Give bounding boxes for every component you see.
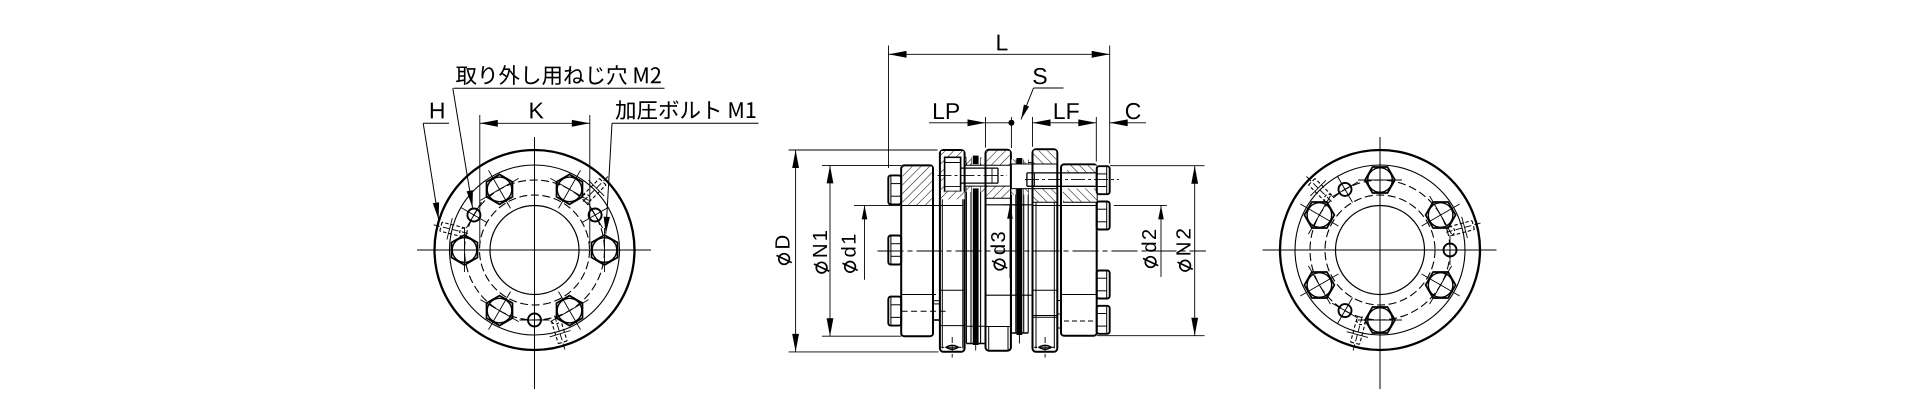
right view: removal screw hole M2 at 240 deg xyxy=(1332,298,1358,324)
label S with leader and dot xyxy=(1008,68,1063,126)
section view: main axis centerline xyxy=(878,250,1207,252)
right view: pressure bolt M1 hex head at 150 deg xyxy=(1300,196,1338,234)
T3 hatch bands xyxy=(1034,150,1057,163)
M1 bolt head inside T1 (section at 12 o clock) xyxy=(945,157,961,191)
T1 hatch: top band and left wall xyxy=(941,151,964,156)
right view: pressure bolt M1 hex head at 210 deg xyxy=(1300,266,1338,304)
pack1 bottom edge lines xyxy=(966,343,985,345)
pack1 connector lines to T1 xyxy=(965,156,967,158)
left view: pressure bolt M1 hex head at 180 deg xyxy=(443,228,487,272)
hidden line in right hub (bottom) xyxy=(1064,320,1094,322)
right hub bore bottom line xyxy=(1061,294,1097,296)
left view: removal screw hole M2 at 150 deg xyxy=(461,202,487,228)
left view: pressure bolt M1 hex head at 60 deg xyxy=(550,170,588,208)
left view: pressure bolt M1 hex head at 0 deg xyxy=(583,228,627,272)
right view: outer circle (flange OD, phi D) xyxy=(1280,150,1480,350)
right hub bore edge lines (phi d2) xyxy=(1033,205,1097,207)
right view: pressure bolt M1 hex head at 90 deg xyxy=(1358,158,1402,202)
dimension phi d3 (half) xyxy=(991,205,1026,278)
right view: removal screw hole M2 at 120 deg xyxy=(1332,176,1358,202)
left view: hidden spacer bolt (dashed) at 166 deg xyxy=(434,218,468,239)
dimension LF xyxy=(1033,103,1097,161)
right bolt axis centerline xyxy=(1025,178,1119,180)
T1 bottom pocket ceiling xyxy=(940,325,965,327)
dimension phi N2 xyxy=(1097,166,1205,336)
left view: vertical centerline xyxy=(534,137,536,389)
left hub bore edge lines (phi d1) xyxy=(901,205,963,207)
left view: bore circle xyxy=(490,206,579,295)
M1 bolt shank rod (left, unsectioned) xyxy=(961,168,998,183)
left view: removal screw hole M2 at 270 deg xyxy=(520,305,550,335)
label: removal screw hole M2 (Japanese) xyxy=(453,65,665,208)
right view: hub boss circle K (dashed) xyxy=(1325,195,1435,305)
left view: pressure bolt M1 hex head at 300 deg xyxy=(550,292,588,330)
disc pack 2 (black, interrupted by bolt shank) xyxy=(1017,158,1023,335)
pack2 bottom centerline tick xyxy=(1018,335,1020,344)
left view: pressure bolt M1 hex head at 240 deg xyxy=(480,292,518,330)
pack2 right side plate xyxy=(1024,160,1028,334)
left hub flange section hatch (upper) xyxy=(902,167,932,206)
T1 collar bore edge (bottom) xyxy=(940,289,965,291)
T3 pocket inner walls xyxy=(1035,202,1037,348)
T2 inner pocket (bottom) xyxy=(986,327,1011,350)
left clamp collar (T1) outline xyxy=(940,150,965,352)
disc pack 1 (black, interrupted by bolt shank) xyxy=(973,156,979,345)
right adapter flange (T3) outline xyxy=(1033,149,1058,351)
T2 bolt hole edge lines xyxy=(965,164,1011,166)
pack2 outer washer faces xyxy=(1028,162,1032,164)
left view: pilot circle (phi N) xyxy=(450,165,620,335)
left view: bolt circle (dashed) xyxy=(465,180,605,320)
T3 bottom pocket bolt (lens) xyxy=(1034,337,1056,358)
T1 bottom pocket bolt (lens) xyxy=(941,337,963,358)
right view: pressure bolt M1 hex head at 270 deg xyxy=(1358,298,1402,342)
left view: pressure bolt M1 hex head at 120 deg xyxy=(480,170,518,208)
dimension C xyxy=(1110,103,1146,126)
left adapter flange (T2) outline xyxy=(986,150,1011,351)
M1 bolt shank rod (right) xyxy=(1027,173,1097,186)
right view: removal screw hole M2 at 0 deg xyxy=(1435,235,1465,265)
pack2 bottom edge lines xyxy=(1011,332,1028,334)
left view: outer circle (flange OD, phi D) xyxy=(435,150,635,350)
T3 bolt hole edge lines xyxy=(1011,163,1057,165)
right hub section hatch xyxy=(1067,165,1097,173)
right view: pressure bolt M1 hex head at 330 deg xyxy=(1422,266,1460,304)
dimension K (boss circle dia) xyxy=(480,103,590,243)
right view: pilot circle (phi N) xyxy=(1295,165,1465,335)
T1 hatch below bolt head xyxy=(945,192,965,200)
right view: hidden spacer bolt (dashed) at 255 deg xyxy=(1347,316,1368,350)
left hub clamp bolt heads on left face xyxy=(888,175,901,204)
hub boss step lines (bottom) xyxy=(933,301,940,320)
right view: bore circle xyxy=(1336,206,1425,295)
left view: hidden spacer bolt (dashed) at 45 deg xyxy=(583,177,609,203)
right view: bolt circle (dashed) xyxy=(1310,180,1450,320)
right hub body (phi N2) xyxy=(1061,164,1097,335)
pack1 bottom centerline tick xyxy=(975,345,977,351)
left view: removal screw hole M2 at 30 deg xyxy=(582,202,608,228)
T2 hatch bands xyxy=(987,151,1010,165)
spacer bore edge lines (phi d3) xyxy=(986,204,1033,206)
pack2 left side plate xyxy=(1011,160,1015,334)
pack1 right side plate xyxy=(981,158,986,344)
hidden line under left hub xyxy=(902,310,947,312)
dimension LP xyxy=(929,103,1011,148)
T1 pocket inner walls xyxy=(941,199,943,348)
left view: hub boss circle K (dashed) xyxy=(480,195,590,305)
label H with leader to hidden bolt hole xyxy=(423,103,449,220)
dimension phi N1 xyxy=(813,165,901,336)
dimension L xyxy=(889,35,1110,168)
right hub clamp bolt heads on right face xyxy=(1097,166,1110,194)
right view: pressure bolt M1 hex head at 30 deg xyxy=(1422,196,1460,234)
left view: horizontal centerline xyxy=(417,249,651,251)
right view: hidden spacer bolt (dashed) at 15 deg xyxy=(1446,217,1480,238)
left view: hidden spacer bolt (dashed) at 287 deg xyxy=(550,316,571,350)
right view: vertical centerline xyxy=(1379,137,1381,389)
dimension phi D xyxy=(775,150,938,352)
pack1 left side plate xyxy=(966,158,971,344)
right view: horizontal centerline xyxy=(1263,249,1497,251)
T3 bottom pocket ceiling (double line) xyxy=(1033,315,1058,317)
left hub body (phi N1) xyxy=(901,165,933,336)
right view: hidden spacer bolt (dashed) at 135 deg xyxy=(1307,177,1333,203)
connecting steps between T3 and right hub xyxy=(1057,301,1061,329)
label: pressure bolt M1 (Japanese) xyxy=(604,100,759,234)
dimension phi d1 (half) xyxy=(841,205,900,279)
left bolt axis centerline xyxy=(938,174,1008,176)
dimension phi d2 (half) xyxy=(1114,205,1167,277)
